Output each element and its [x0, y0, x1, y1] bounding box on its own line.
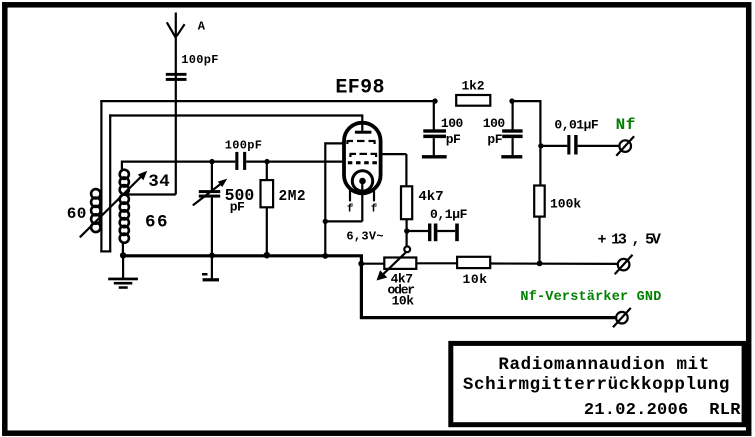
- wiper contact circle: [404, 246, 410, 252]
- title line 3: [584, 401, 741, 420]
- svg-text:f: f: [371, 204, 378, 216]
- svg-text:4k7: 4k7: [418, 189, 443, 205]
- svg-text:2M2: 2M2: [279, 189, 307, 205]
- svg-text:6,3V~: 6,3V~: [346, 229, 384, 243]
- svg-text:pF: pF: [446, 132, 461, 147]
- title box: [451, 343, 744, 424]
- node 1k2 right: [509, 98, 514, 103]
- wire pot left: [361, 263, 385, 265]
- capacitor 0,01uF: [540, 117, 618, 154]
- antenna A: [167, 13, 206, 195]
- potentiometer 4k7 oder 10k: [377, 252, 417, 309]
- node coil-rail: [120, 252, 126, 258]
- svg-text:10k: 10k: [463, 272, 488, 287]
- capacitor 100pF antenna: [166, 53, 219, 81]
- label 6,3V~: [346, 229, 384, 243]
- filament pins f f: [347, 189, 378, 216]
- node 100k bottom: [537, 261, 543, 267]
- wire tap 34: [125, 193, 176, 195]
- node 2M2 bottom: [264, 252, 271, 259]
- label +13,5V: [598, 232, 661, 249]
- wire 1k2 right to corner: [512, 100, 540, 186]
- svg-text:Nf-Verstärker GND: Nf-Verstärker GND: [520, 290, 661, 305]
- svg-text:10k: 10k: [392, 294, 415, 309]
- svg-text:EF98: EF98: [335, 76, 384, 99]
- svg-text:0,01µF: 0,01µF: [554, 117, 599, 132]
- svg-text:pF: pF: [487, 132, 502, 147]
- svg-text:A: A: [198, 19, 206, 33]
- arrow variable coupling: [80, 171, 147, 238]
- title line 1: [498, 355, 710, 375]
- wire cathode down: [324, 184, 362, 221]
- coil L2 upper 34: [120, 161, 129, 195]
- node 500pF bottom: [209, 253, 215, 259]
- svg-text:100pF: 100pF: [181, 53, 219, 67]
- node g3-rail: [322, 253, 328, 259]
- svg-text:100: 100: [483, 116, 506, 131]
- node 4k7-0,1uF: [404, 228, 409, 233]
- wire U joint bottom: [100, 250, 111, 252]
- wire gnd rail bottom: [360, 316, 616, 319]
- svg-text:100pF: 100pF: [225, 138, 263, 152]
- tube EF98 envelope: [344, 123, 381, 194]
- wire tuned circuit top: [121, 161, 344, 163]
- ground symbol earth: [108, 255, 138, 289]
- svg-text:1k2: 1k2: [462, 78, 485, 93]
- svg-text:pF: pF: [230, 200, 245, 215]
- capacitor 100pF coupling: [225, 138, 263, 170]
- capacitor 100pF decoupling left: [422, 101, 464, 158]
- wire anode top: [109, 114, 362, 116]
- resistor 10k: [457, 257, 490, 287]
- svg-text:21.02.2006 RLR: 21.02.2006 RLR: [584, 401, 741, 420]
- svg-text:Nf: Nf: [616, 116, 636, 134]
- wire g2 to 4k7: [379, 154, 406, 186]
- port +13,5V: [615, 255, 633, 274]
- svg-text:34: 34: [148, 172, 170, 192]
- label Nf: [616, 116, 636, 134]
- wire anode-supply top: [100, 100, 435, 102]
- ground rail: [122, 254, 363, 257]
- svg-text:100k: 100k: [550, 196, 581, 211]
- wire g3 to cathode rail: [325, 142, 344, 256]
- node 1k2 left: [432, 98, 437, 103]
- svg-text:Radiomannaudion mit: Radiomannaudion mit: [498, 355, 710, 375]
- label 60: [67, 205, 87, 223]
- label 34: [148, 172, 170, 192]
- ground chassis 500pF: [202, 255, 219, 281]
- svg-text:100: 100: [441, 116, 464, 131]
- anode: [355, 114, 372, 133]
- node pot-gnd vertical: [358, 261, 364, 267]
- label Nf-Verstaerker GND: [520, 290, 661, 305]
- wire 10k to +13,5V port: [490, 262, 618, 265]
- svg-text:f: f: [347, 204, 354, 216]
- svg-text:60: 60: [67, 205, 87, 223]
- wire left vertical inner: [109, 114, 111, 251]
- node cathode-g3: [323, 219, 328, 224]
- capacitor 100pF decoupling right: [483, 101, 523, 158]
- wire pot right to 10k: [416, 262, 457, 264]
- node Nf tap: [538, 143, 543, 148]
- cathode: [352, 171, 372, 191]
- svg-text:0,1µF: 0,1µF: [430, 207, 468, 222]
- node 500pF top: [209, 159, 214, 164]
- coil L1 60: [91, 189, 100, 232]
- resistor 4k7 screen: [401, 186, 444, 247]
- resistor 100k: [534, 186, 581, 264]
- wire left vertical outer: [100, 100, 102, 252]
- svg-text:Schirmgitterrückkopplung: Schirmgitterrückkopplung: [463, 375, 730, 395]
- grid g3: [347, 141, 376, 144]
- label 66: [145, 213, 169, 233]
- resistor 2M2: [261, 162, 307, 256]
- capacitor 500pF variable: [193, 162, 255, 256]
- coil L2 lower 66: [120, 195, 129, 255]
- svg-text:+ 13 , 5V: + 13 , 5V: [598, 232, 661, 249]
- wire gnd thick vertical: [360, 255, 363, 319]
- resistor 1k2: [456, 78, 490, 105]
- label EF98: [335, 76, 384, 99]
- port Nf: [616, 136, 634, 155]
- port GND: [613, 308, 631, 327]
- capacitor 0,1uF: [407, 207, 468, 241]
- grid g1 control: [348, 161, 377, 164]
- svg-text:66: 66: [145, 213, 169, 233]
- grid g2 screen: [350, 154, 378, 157]
- node 2M2 top: [264, 159, 269, 164]
- title line 2: [463, 375, 730, 395]
